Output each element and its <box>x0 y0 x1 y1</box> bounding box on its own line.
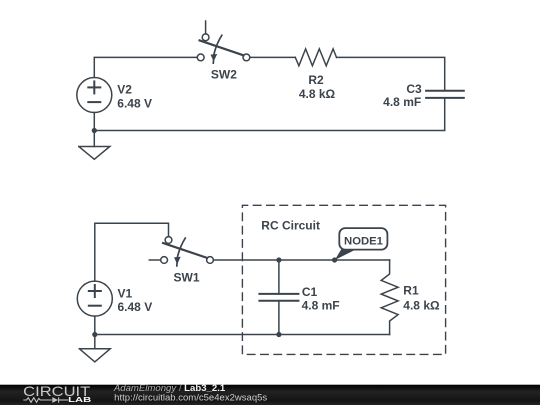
svg-text:SW1: SW1 <box>173 270 199 284</box>
svg-text:4.8 mF: 4.8 mF <box>302 299 340 313</box>
svg-text:R1: R1 <box>403 284 419 298</box>
svg-text:4.8 kΩ: 4.8 kΩ <box>299 87 336 101</box>
svg-text:C3: C3 <box>406 82 422 96</box>
svg-text:AdamElmongy / Lab3_2.1: AdamElmongy / Lab3_2.1 <box>113 383 225 393</box>
svg-text:LAB: LAB <box>68 397 91 404</box>
svg-text:NODE1: NODE1 <box>344 235 383 247</box>
svg-text:R2: R2 <box>308 73 324 87</box>
svg-text:V1: V1 <box>118 286 133 300</box>
svg-text:6.48 V: 6.48 V <box>117 97 152 111</box>
svg-text:4.8 mF: 4.8 mF <box>383 95 421 109</box>
svg-text:V2: V2 <box>117 83 132 97</box>
svg-text:6.48 V: 6.48 V <box>118 300 153 314</box>
svg-text:SW2: SW2 <box>211 68 237 82</box>
svg-text:http://circuitlab.com/c5e4ex2w: http://circuitlab.com/c5e4ex2wsaq5s <box>114 393 268 403</box>
svg-text:C1: C1 <box>302 285 318 299</box>
svg-text:RC Circuit: RC Circuit <box>261 219 320 233</box>
svg-text:4.8 kΩ: 4.8 kΩ <box>403 299 440 313</box>
